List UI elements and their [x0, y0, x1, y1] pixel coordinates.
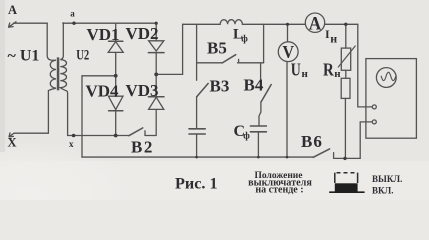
- rheostat arrow: [338, 46, 355, 67]
- legend dashed box (off position): [335, 173, 358, 183]
- svg-text:А: А: [309, 13, 322, 34]
- svg-text:~ U1: ~ U1: [8, 48, 40, 65]
- svg-text:VD1: VD1: [87, 25, 120, 44]
- transformer U2 secondary winding: [60, 23, 67, 136]
- wire riser to output rail: [182, 24, 184, 74]
- wire bottom rail: [82, 156, 313, 158]
- wire primary bottom: [14, 132, 48, 134]
- svg-text:VD3: VD3: [126, 81, 159, 100]
- wire between resistors: [345, 70, 347, 78]
- diode VD3: [155, 74, 157, 96]
- oscilloscope box: [366, 59, 417, 139]
- scope terminal lower: [372, 120, 376, 124]
- wire B2 right to VD3: [145, 131, 156, 136]
- switch B4: [260, 63, 262, 79]
- wire primary top: [14, 22, 48, 24]
- node V branch dot: [286, 23, 289, 26]
- svg-text:ф: ф: [243, 130, 250, 141]
- oscilloscope sine wave: [381, 72, 395, 80]
- rheostat R1 rectangle: [341, 48, 350, 70]
- wire scope lower terminal to bottom: [360, 122, 372, 158]
- voltmeter V circle: [278, 42, 298, 62]
- svg-text:н: н: [334, 68, 341, 80]
- wire M1 down to bottom rail: [81, 76, 83, 157]
- terminal X arrow: [9, 133, 14, 137]
- legend text block: [248, 171, 312, 196]
- wire M1 node to left: [82, 75, 116, 77]
- wire bypass right: [263, 24, 265, 63]
- node VD4 bottom dot: [114, 134, 118, 138]
- voltmeter branch wires: [286, 24, 289, 157]
- load branch wire top: [345, 24, 347, 48]
- node load bottom dot: [343, 157, 346, 160]
- switch B3: [196, 63, 198, 80]
- node a dot: [72, 22, 75, 25]
- switch B6 blade: [313, 149, 329, 157]
- svg-text:VD4: VD4: [86, 82, 120, 101]
- switch B2 blade: [129, 128, 143, 136]
- svg-text:U2: U2: [76, 48, 89, 64]
- svg-text:А: А: [8, 3, 17, 17]
- svg-text:н: н: [302, 68, 309, 80]
- svg-text:х: х: [69, 139, 74, 149]
- capacitor Cf plates: [250, 125, 266, 127]
- svg-text:а: а: [70, 9, 75, 19]
- wire B5 line right: [238, 59, 264, 62]
- svg-text:В4: В4: [244, 76, 264, 95]
- svg-text:ВЫКЛ.: ВЫКЛ.: [372, 174, 402, 184]
- inductor Lf: [220, 20, 242, 25]
- node M2 dot: [154, 73, 158, 77]
- node M1 dot: [114, 74, 118, 78]
- legend filled box (on position): [335, 183, 358, 192]
- wire M2 node to riser: [156, 73, 182, 75]
- node V bottom dot: [286, 156, 289, 159]
- resistor R2 rectangle: [341, 78, 350, 98]
- node x dot: [72, 134, 76, 138]
- wire output top rail: [183, 23, 358, 25]
- svg-text:U: U: [291, 60, 301, 80]
- svg-text:В6: В6: [301, 132, 323, 151]
- svg-text:В2: В2: [131, 138, 154, 157]
- legend baseline: [329, 191, 364, 193]
- wire bridge top rail: [63, 22, 156, 24]
- wire B6 right section: [334, 153, 361, 159]
- switch B5 blade: [222, 55, 236, 63]
- diode VD4: [115, 76, 117, 96]
- diode VD2: [155, 23, 157, 41]
- svg-text:Рис. 1: Рис. 1: [175, 175, 218, 193]
- wire B5 line left: [197, 62, 223, 64]
- svg-text:R: R: [323, 60, 335, 80]
- wire rail corner to scope upper terminal: [358, 24, 373, 107]
- terminal A arrow: [9, 22, 17, 27]
- scope terminal upper: [372, 105, 376, 109]
- svg-text:В5: В5: [207, 39, 227, 58]
- node load top dot: [344, 23, 347, 26]
- node VD2 top dot: [155, 22, 158, 25]
- ammeter A circle: [305, 13, 324, 32]
- node C1 bottom dot: [195, 156, 198, 159]
- svg-text:В3: В3: [210, 77, 230, 96]
- transformer core: [57, 57, 60, 90]
- capacitor C1 plates: [189, 128, 205, 130]
- load branch wire bottom: [344, 98, 346, 158]
- wire x line: [68, 135, 129, 137]
- diode VD1: [115, 23, 117, 41]
- svg-text:I: I: [325, 27, 330, 41]
- svg-text:Х: Х: [8, 136, 17, 150]
- svg-text:VD2: VD2: [126, 24, 159, 43]
- svg-text:н: н: [330, 31, 337, 45]
- transformer U1 primary winding: [47, 23, 56, 133]
- svg-text:ф: ф: [241, 33, 248, 44]
- node Cf bottom dot: [257, 156, 260, 159]
- svg-text:ВКЛ.: ВКЛ.: [372, 185, 394, 195]
- wire bypass left: [196, 24, 198, 63]
- oscilloscope screen circle: [376, 68, 396, 88]
- svg-text:на стенде :: на стенде :: [255, 185, 303, 196]
